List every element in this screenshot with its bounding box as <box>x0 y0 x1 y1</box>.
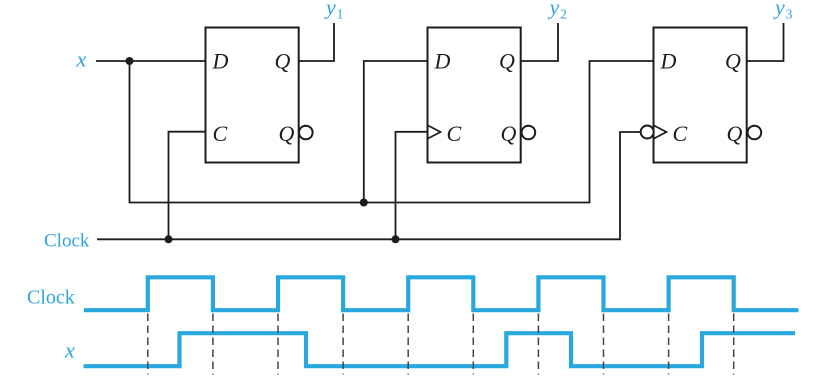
x waveform <box>84 333 796 366</box>
U2 Qbar bubble <box>522 126 536 140</box>
svg-text:2: 2 <box>560 8 567 23</box>
svg-text:C: C <box>213 121 228 146</box>
flip-flop U3 box <box>654 28 747 163</box>
timing grid dashed line t5 <box>407 314 409 375</box>
timing grid dashed line t7 <box>537 314 539 375</box>
svg-text:3: 3 <box>786 8 793 23</box>
U2 clock edge triangle <box>428 125 441 139</box>
wire U3 Q output to y3 <box>747 23 784 61</box>
timing grid dashed line t10 <box>733 314 735 375</box>
svg-text:D: D <box>212 49 229 74</box>
U3 Qbar bubble <box>748 126 762 140</box>
timing grid dashed line t9 <box>668 314 670 375</box>
timing grid dashed line t2 <box>212 314 214 375</box>
svg-text:x: x <box>76 47 87 72</box>
svg-text:1: 1 <box>337 8 344 23</box>
timing grid dashed line t1 <box>147 314 149 375</box>
U1 Qbar bubble <box>299 126 313 140</box>
node clock to U2 C <box>392 235 400 243</box>
wire U1 Q output to y1 <box>299 23 334 61</box>
svg-text:Clock: Clock <box>44 231 90 252</box>
svg-text:C: C <box>673 121 688 146</box>
svg-text:y: y <box>548 0 560 20</box>
svg-text:D: D <box>434 49 451 74</box>
wire branch up to U2 D <box>364 61 428 203</box>
wire clock up to U1 C <box>169 132 206 240</box>
node clock to U1 C <box>165 235 173 243</box>
wire x feed down and across to U3 D <box>130 61 654 203</box>
clock waveform <box>84 277 799 310</box>
wire clock up to U2 C <box>396 132 428 240</box>
svg-text:Q: Q <box>727 121 743 146</box>
node branch to U2 D <box>360 199 368 207</box>
svg-text:Q: Q <box>499 49 515 74</box>
wire x input to U1 D <box>96 60 206 62</box>
svg-text:Q: Q <box>275 49 291 74</box>
U3 clock input bubble <box>641 126 654 139</box>
timing grid dashed line t8 <box>603 314 605 375</box>
node x junction <box>126 57 134 65</box>
flip-flop U2 box <box>428 28 521 163</box>
svg-text:Q: Q <box>501 121 517 146</box>
svg-text:C: C <box>447 121 462 146</box>
timing grid dashed line t3 <box>277 314 279 375</box>
svg-text:Q: Q <box>279 121 295 146</box>
wire U2 Q output to y2 <box>521 23 558 61</box>
svg-text:Q: Q <box>725 49 741 74</box>
svg-text:x: x <box>64 338 75 363</box>
timing grid dashed line t6 <box>472 314 474 375</box>
svg-text:y: y <box>324 0 336 20</box>
wire clock line to U3 C <box>97 132 641 239</box>
timing grid dashed line t4 <box>342 314 344 375</box>
U3 clock edge triangle <box>654 125 667 139</box>
flip-flop U1 box <box>206 28 299 163</box>
svg-text:Clock: Clock <box>27 287 75 309</box>
svg-text:y: y <box>773 0 785 20</box>
svg-text:D: D <box>660 49 677 74</box>
